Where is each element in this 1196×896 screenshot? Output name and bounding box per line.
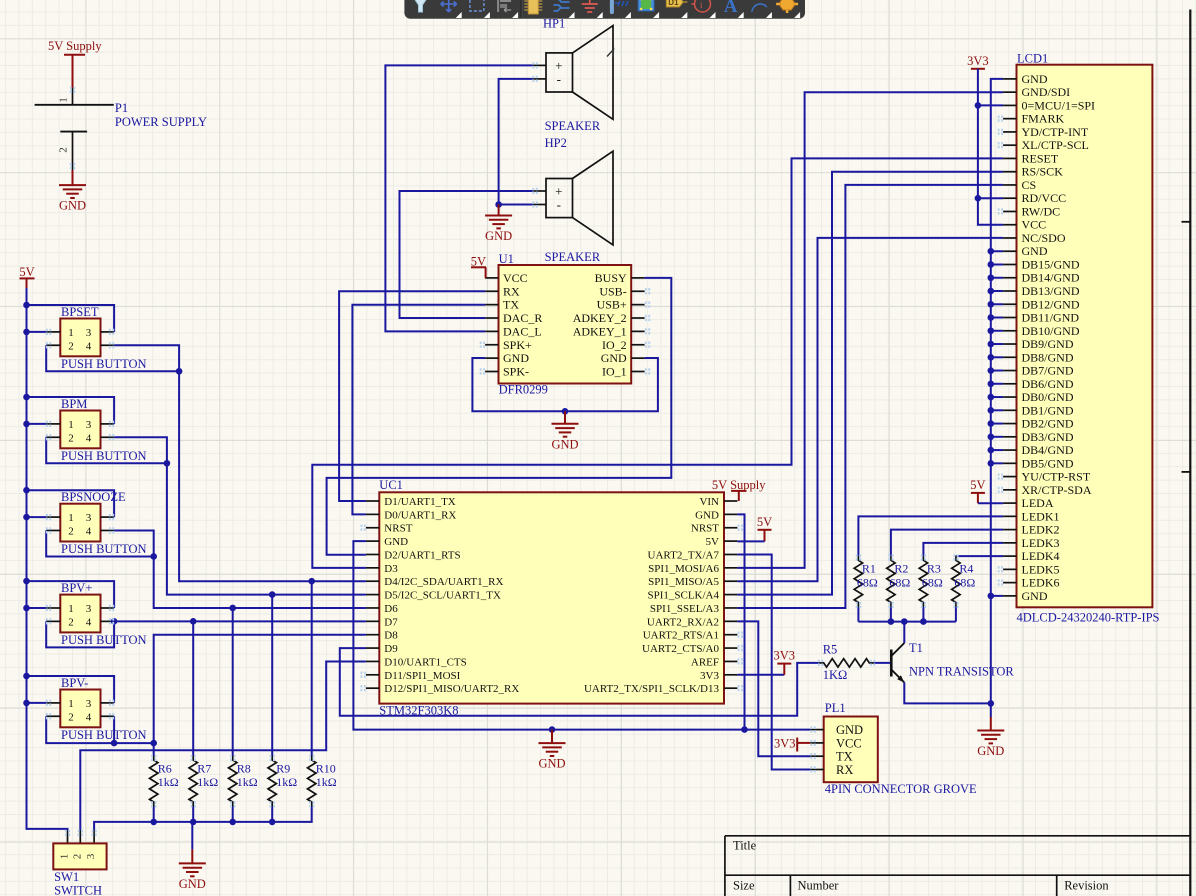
svg-text:GND: GND — [601, 351, 627, 365]
svg-text:0=MCU/1=SPI: 0=MCU/1=SPI — [1022, 98, 1096, 112]
svg-text:1kΩ: 1kΩ — [197, 775, 218, 789]
svg-text:SPK-: SPK- — [503, 364, 529, 378]
svg-text:RW/DC: RW/DC — [1022, 204, 1061, 218]
svg-text:1: 1 — [58, 97, 70, 103]
svg-text:DB6/GND: DB6/GND — [1022, 377, 1074, 391]
svg-text:BPM: BPM — [61, 397, 87, 411]
svg-text:HP2: HP2 — [545, 136, 567, 150]
svg-text:GND: GND — [1022, 589, 1048, 603]
svg-text:2: 2 — [68, 340, 74, 352]
svg-text:SPI1_MOSI/A6: SPI1_MOSI/A6 — [648, 563, 719, 575]
svg-text:FMARK: FMARK — [1022, 112, 1065, 126]
svg-text:D12/SPI1_MISO/UART2_RX: D12/SPI1_MISO/UART2_RX — [384, 683, 519, 695]
svg-text:DB4/GND: DB4/GND — [1022, 443, 1074, 457]
svg-text:TX: TX — [836, 750, 853, 764]
svg-text:PUSH BUTTON: PUSH BUTTON — [61, 633, 147, 647]
svg-text:UART2_RX/A2: UART2_RX/A2 — [647, 616, 719, 628]
svg-text:1kΩ: 1kΩ — [276, 775, 297, 789]
svg-text:BPSNOOZE: BPSNOOZE — [61, 490, 126, 504]
svg-text:GND: GND — [551, 437, 578, 451]
svg-text:DB3/GND: DB3/GND — [1022, 430, 1074, 444]
svg-text:LEDK1: LEDK1 — [1022, 509, 1060, 523]
svg-text:2: 2 — [68, 711, 74, 723]
svg-text:LEDA: LEDA — [1022, 496, 1054, 510]
svg-text:BPV+: BPV+ — [61, 581, 92, 595]
svg-text:D1/UART1_TX: D1/UART1_TX — [384, 496, 456, 508]
svg-text:GND: GND — [836, 723, 863, 737]
svg-text:GND: GND — [1022, 72, 1048, 86]
svg-text:DB8/GND: DB8/GND — [1022, 350, 1074, 364]
svg-text:IO_1: IO_1 — [602, 364, 627, 378]
svg-text:3: 3 — [86, 603, 92, 615]
svg-text:68Ω: 68Ω — [954, 576, 975, 590]
svg-text:SWITCH: SWITCH — [54, 884, 102, 896]
svg-text:2: 2 — [68, 432, 74, 444]
svg-text:4DLCD-24320240-RTP-IPS: 4DLCD-24320240-RTP-IPS — [1017, 611, 1160, 625]
svg-text:LEDK4: LEDK4 — [1022, 549, 1060, 563]
svg-text:2: 2 — [58, 147, 70, 153]
svg-text:3: 3 — [86, 327, 92, 339]
svg-text:1kΩ: 1kΩ — [237, 775, 258, 789]
svg-text:D6: D6 — [384, 603, 398, 615]
svg-text:SW1: SW1 — [54, 870, 79, 884]
svg-text:4PIN CONNECTOR GROVE: 4PIN CONNECTOR GROVE — [825, 782, 977, 796]
svg-text:USB+: USB+ — [597, 298, 627, 312]
svg-text:D4/I2C_SDA/UART1_RX: D4/I2C_SDA/UART1_RX — [384, 576, 503, 588]
svg-text:TX: TX — [503, 298, 519, 312]
svg-text:3: 3 — [86, 419, 92, 431]
svg-text:DB9/GND: DB9/GND — [1022, 337, 1074, 351]
svg-text:GND: GND — [503, 351, 529, 365]
svg-text:P1: P1 — [115, 101, 128, 115]
svg-text:PUSH BUTTON: PUSH BUTTON — [61, 542, 147, 556]
svg-text:PUSH BUTTON: PUSH BUTTON — [61, 357, 147, 371]
svg-text:LEDK5: LEDK5 — [1022, 562, 1060, 576]
svg-text:DAC_R: DAC_R — [503, 311, 542, 325]
svg-text:SPI1_SCLK/A4: SPI1_SCLK/A4 — [647, 590, 719, 602]
svg-text:R10: R10 — [316, 762, 336, 776]
svg-text:4: 4 — [86, 432, 92, 444]
svg-text:UART2_CTS/A0: UART2_CTS/A0 — [642, 643, 719, 655]
svg-text:R7: R7 — [197, 762, 211, 776]
svg-text:GND: GND — [695, 509, 719, 521]
svg-text:VCC: VCC — [836, 736, 862, 750]
svg-text:3V3: 3V3 — [774, 737, 796, 751]
svg-text:CS: CS — [1022, 178, 1037, 192]
svg-text:XL/CTP-SCL: XL/CTP-SCL — [1022, 138, 1089, 152]
svg-text:3V3: 3V3 — [967, 54, 989, 68]
svg-text:3: 3 — [85, 853, 97, 859]
svg-text:4: 4 — [86, 711, 92, 723]
svg-text:VCC: VCC — [503, 271, 528, 285]
svg-text:1: 1 — [68, 603, 74, 615]
svg-text:DB1/GND: DB1/GND — [1022, 403, 1074, 417]
svg-text:Title: Title — [733, 839, 757, 853]
svg-text:POWER SUPPLY: POWER SUPPLY — [115, 115, 207, 129]
svg-text:DB14/GND: DB14/GND — [1022, 271, 1080, 285]
svg-text:D3: D3 — [384, 563, 398, 575]
svg-text:NRST: NRST — [384, 523, 412, 535]
svg-text:A: A — [724, 0, 738, 17]
svg-text:3: 3 — [86, 512, 92, 524]
svg-text:3V3: 3V3 — [700, 670, 719, 682]
svg-text:DB11/GND: DB11/GND — [1022, 311, 1080, 325]
svg-text:2: 2 — [71, 854, 83, 860]
svg-text:SPK+: SPK+ — [503, 338, 532, 352]
svg-text:YD/CTP-INT: YD/CTP-INT — [1022, 125, 1089, 139]
svg-text:2: 2 — [68, 616, 74, 628]
svg-text:BPSET: BPSET — [61, 305, 99, 319]
svg-text:1KΩ: 1KΩ — [823, 668, 848, 682]
svg-text:R8: R8 — [237, 762, 251, 776]
svg-text:R6: R6 — [158, 762, 172, 776]
svg-text:DB15/GND: DB15/GND — [1022, 257, 1080, 271]
svg-text:5V: 5V — [706, 536, 720, 548]
svg-text:DB12/GND: DB12/GND — [1022, 297, 1080, 311]
svg-text:PUSH BUTTON: PUSH BUTTON — [61, 728, 147, 742]
svg-text:GND: GND — [179, 877, 206, 891]
svg-text:-: - — [557, 71, 561, 86]
svg-text:VIN: VIN — [699, 496, 719, 508]
svg-text:D11/SPI1_MOSI: D11/SPI1_MOSI — [384, 670, 460, 682]
svg-text:DB0/GND: DB0/GND — [1022, 390, 1074, 404]
svg-text:D9: D9 — [384, 643, 398, 655]
svg-text:-: - — [557, 197, 561, 212]
svg-text:1: 1 — [68, 512, 74, 524]
svg-text:1: 1 — [68, 327, 74, 339]
svg-text:GND/SDI: GND/SDI — [1022, 85, 1071, 99]
svg-text:D2/UART1_RTS: D2/UART1_RTS — [384, 549, 460, 561]
svg-text:DB13/GND: DB13/GND — [1022, 284, 1080, 298]
svg-text:3V3: 3V3 — [774, 649, 796, 663]
svg-text:1kΩ: 1kΩ — [158, 775, 179, 789]
svg-text:VCC: VCC — [1022, 218, 1047, 232]
svg-text:SPEAKER: SPEAKER — [545, 119, 601, 133]
svg-text:T1: T1 — [909, 641, 923, 655]
svg-text:3: 3 — [86, 698, 92, 710]
svg-text:DB2/GND: DB2/GND — [1022, 417, 1074, 431]
svg-text:R3: R3 — [927, 562, 941, 576]
svg-text:RESET: RESET — [1022, 151, 1059, 165]
svg-text:4: 4 — [86, 525, 92, 537]
svg-text:GND: GND — [59, 199, 86, 213]
svg-text:68Ω: 68Ω — [889, 576, 910, 590]
svg-text:DFR0299: DFR0299 — [499, 383, 548, 397]
svg-text:UC1: UC1 — [379, 478, 403, 492]
svg-text:D5/I2C_SCL/UART1_TX: D5/I2C_SCL/UART1_TX — [384, 590, 501, 602]
svg-text:GND: GND — [1022, 244, 1048, 258]
svg-text:DAC_L: DAC_L — [503, 324, 542, 338]
svg-text:BPV-: BPV- — [61, 676, 88, 690]
svg-text:UART2_TX/SPI1_SCLK/D13: UART2_TX/SPI1_SCLK/D13 — [584, 683, 720, 695]
svg-text:NPN TRANSISTOR: NPN TRANSISTOR — [909, 665, 1014, 679]
svg-text:U1: U1 — [499, 252, 514, 266]
svg-text:LCD1: LCD1 — [1017, 52, 1048, 66]
svg-text:5V: 5V — [757, 515, 772, 529]
svg-text:68Ω: 68Ω — [922, 576, 943, 590]
svg-text:D0/UART1_RX: D0/UART1_RX — [384, 509, 456, 521]
svg-text:SPI1_SSEL/A3: SPI1_SSEL/A3 — [650, 603, 720, 615]
svg-text:4: 4 — [86, 616, 92, 628]
svg-text:AREF: AREF — [691, 656, 719, 668]
svg-text:RS/SCK: RS/SCK — [1022, 165, 1064, 179]
svg-text:DB7/GND: DB7/GND — [1022, 364, 1074, 378]
svg-text:SPI1_MISO/A5: SPI1_MISO/A5 — [648, 576, 719, 588]
svg-text:1: 1 — [59, 854, 71, 860]
svg-text:D1: D1 — [668, 0, 679, 7]
svg-text:68Ω: 68Ω — [857, 576, 878, 590]
svg-text:Size: Size — [733, 879, 755, 893]
svg-text:XR/CTP-SDA: XR/CTP-SDA — [1022, 483, 1092, 497]
svg-text:4: 4 — [86, 340, 92, 352]
svg-text:ADKEY_2: ADKEY_2 — [573, 311, 627, 325]
svg-text:DB5/GND: DB5/GND — [1022, 456, 1074, 470]
svg-text:5V: 5V — [970, 478, 985, 492]
svg-text:GND: GND — [384, 536, 408, 548]
svg-text:RX: RX — [836, 763, 853, 777]
svg-text:GND: GND — [538, 757, 565, 771]
svg-text:R5: R5 — [823, 643, 838, 657]
svg-text:UART2_RTS/A1: UART2_RTS/A1 — [643, 630, 719, 642]
svg-text:GND: GND — [977, 744, 1004, 758]
svg-text:UART2_TX/A7: UART2_TX/A7 — [648, 549, 720, 561]
svg-text:Revision: Revision — [1064, 879, 1109, 893]
svg-text:D8: D8 — [384, 630, 398, 642]
svg-text:LEDK6: LEDK6 — [1022, 576, 1060, 590]
svg-text:YU/CTP-RST: YU/CTP-RST — [1022, 470, 1091, 484]
svg-text:DB10/GND: DB10/GND — [1022, 324, 1080, 338]
svg-text:LEDK3: LEDK3 — [1022, 536, 1060, 550]
svg-text:R1: R1 — [862, 562, 876, 576]
svg-text:1: 1 — [68, 698, 74, 710]
svg-text:D7: D7 — [384, 616, 398, 628]
svg-text:R4: R4 — [959, 562, 973, 576]
svg-text:NC/SDO: NC/SDO — [1022, 231, 1066, 245]
svg-text:1: 1 — [68, 419, 74, 431]
svg-text:SPEAKER: SPEAKER — [545, 250, 601, 264]
svg-text:PUSH BUTTON: PUSH BUTTON — [61, 449, 147, 463]
svg-text:USB-: USB- — [599, 284, 626, 298]
svg-text:R2: R2 — [894, 562, 908, 576]
svg-text:D10/UART1_CTS: D10/UART1_CTS — [384, 656, 466, 668]
svg-text:NRST: NRST — [691, 523, 719, 535]
svg-text:RX: RX — [503, 284, 520, 298]
svg-text:Number: Number — [798, 879, 840, 893]
svg-text:ADKEY_1: ADKEY_1 — [573, 324, 627, 338]
svg-text:5V: 5V — [19, 265, 34, 279]
svg-text:LEDK2: LEDK2 — [1022, 523, 1060, 537]
svg-text:PL1: PL1 — [825, 701, 846, 715]
svg-text:2: 2 — [68, 525, 74, 537]
svg-text:BUSY: BUSY — [595, 271, 627, 285]
svg-text:R9: R9 — [276, 762, 290, 776]
svg-text:5V Supply: 5V Supply — [48, 39, 102, 53]
svg-text:GND: GND — [485, 229, 512, 243]
svg-text:IO_2: IO_2 — [602, 338, 627, 352]
svg-text:1kΩ: 1kΩ — [316, 775, 337, 789]
svg-text:RD/VCC: RD/VCC — [1022, 191, 1067, 205]
